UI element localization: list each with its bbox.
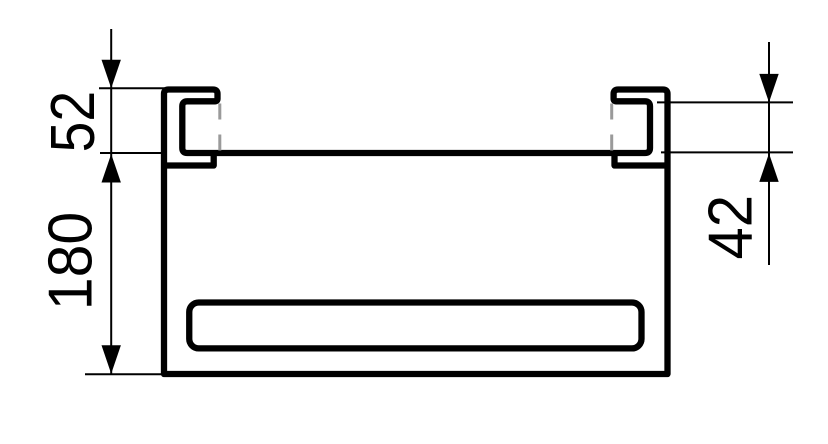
svg-text:42: 42 [696, 195, 765, 259]
svg-text:52: 52 [39, 91, 108, 153]
svg-text:180: 180 [36, 212, 105, 311]
